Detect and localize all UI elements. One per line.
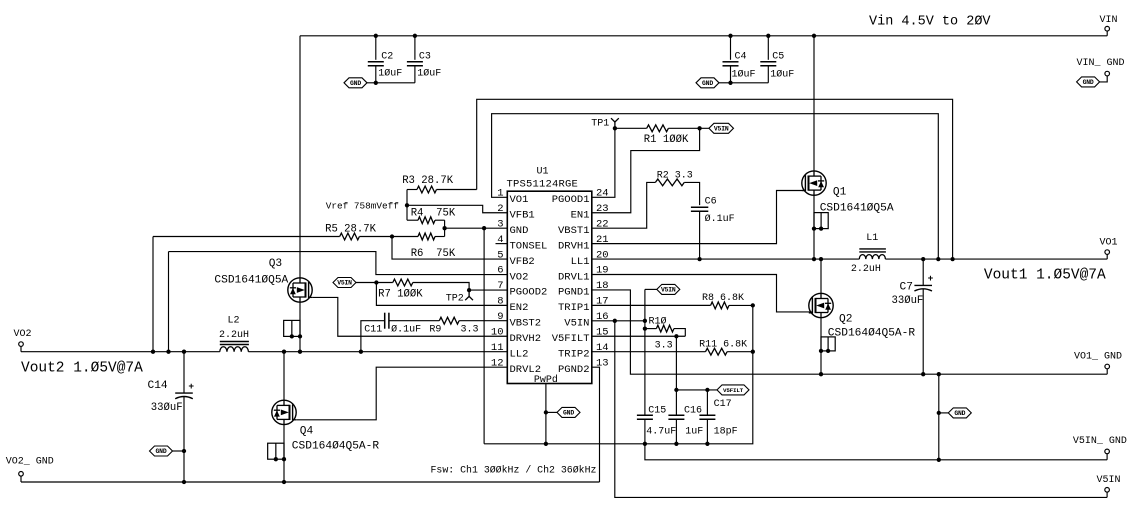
node R10 left junction	[643, 326, 647, 330]
capacitor C7	[914, 273, 933, 291]
wire pin18 PGND1 rail	[592, 290, 1107, 374]
wire GND stub C4	[719, 82, 731, 84]
wire R3 right lead	[437, 189, 477, 191]
label C3	[419, 52, 431, 63]
wire PwPd ground	[545, 384, 547, 444]
node VO2 R5 tap	[151, 350, 155, 354]
svg-text:V5IN: V5IN	[1097, 475, 1121, 486]
svg-text:R2 3.3: R2 3.3	[657, 170, 693, 181]
label R11 6.8K	[699, 339, 747, 350]
wire V5IN flag to C15	[644, 289, 646, 415]
svg-text:Vout2 1.Ø5V@7A: Vout2 1.Ø5V@7A	[21, 361, 143, 377]
resistor R2	[655, 179, 684, 186]
wire VO2 rail right	[248, 351, 507, 353]
wire EN2 to V5IN	[376, 283, 507, 306]
value C11 0.1uF	[391, 323, 421, 335]
svg-text:C15: C15	[648, 405, 666, 416]
wire VO1_GND terminal lead	[1106, 369, 1108, 374]
label R6 75K	[411, 248, 456, 260]
node R8 to ground branch	[751, 303, 755, 307]
wire C2-C3 ground link	[376, 82, 415, 84]
pin 11 LL2	[491, 342, 529, 361]
svg-text:C7: C7	[900, 282, 913, 294]
pin 6 VO2	[497, 265, 528, 284]
wire C15 bottom lead	[644, 419, 646, 444]
node C4 ground junction	[728, 81, 732, 85]
label L1	[866, 233, 878, 244]
svg-text:2.2uH: 2.2uH	[851, 264, 881, 275]
node C3 VIN junction	[413, 34, 417, 38]
wire R11 right lead	[727, 351, 753, 353]
svg-text:R1Ø: R1Ø	[649, 315, 667, 327]
wire V5IN flag to R7	[356, 282, 393, 284]
wire TP1 to R1	[615, 127, 647, 129]
svg-text:33ØuF: 33ØuF	[892, 295, 924, 307]
svg-text:VFB2: VFB2	[510, 256, 535, 268]
note Fsw	[431, 465, 597, 476]
label R1 100K	[644, 134, 689, 146]
svg-text:Fsw: Ch1 3ØØkHz / Ch2 36ØkHz: Fsw: Ch1 3ØØkHz / Ch2 36ØkHz	[431, 465, 597, 476]
svg-text:CSD1641ØQ5A: CSD1641ØQ5A	[820, 203, 894, 215]
svg-text:R11 6.8K: R11 6.8K	[699, 339, 747, 350]
value C14 330uF	[151, 402, 183, 414]
wire GND stub C14	[173, 450, 185, 452]
label Q4 CSD16404Q5A-R	[292, 440, 380, 452]
wire VO2 sense	[169, 252, 508, 275]
svg-text:1ØuF: 1ØuF	[732, 69, 756, 81]
wire C2 top lead	[375, 36, 377, 60]
wire EN1 to V5IN	[592, 128, 700, 212]
svg-text:TRIP1: TRIP1	[558, 302, 590, 314]
pad Q2 source pins	[819, 337, 835, 353]
wire PGND to V5IN_GND link	[938, 374, 940, 460]
value C6 0.1uF	[705, 213, 735, 225]
label C14	[148, 380, 168, 392]
wire C14 bottom lead	[183, 396, 185, 482]
svg-text:Vin 4.5V to 2ØV: Vin 4.5V to 2ØV	[869, 15, 991, 30]
node Q4 drain switch	[282, 350, 286, 354]
svg-text:CSD164Ø4Q5A-R: CSD164Ø4Q5A-R	[828, 328, 916, 340]
svg-text:8: 8	[497, 296, 503, 308]
capacitor C14	[175, 381, 194, 399]
svg-text:4.7uF: 4.7uF	[646, 426, 676, 437]
svg-text:10: 10	[491, 326, 504, 338]
svg-text:GND: GND	[1083, 79, 1094, 86]
transistor Q2	[809, 293, 833, 317]
label C6	[705, 196, 717, 207]
pin 14 TRIP2	[558, 342, 609, 361]
wire C14 top lead	[183, 352, 185, 393]
node C4 VIN junction	[728, 34, 732, 38]
svg-text:2.2uH: 2.2uH	[219, 330, 249, 341]
ground flag at V5IN_GND link	[948, 408, 971, 418]
pad Q3 source pins	[284, 320, 302, 338]
ground flag at C4	[696, 78, 719, 88]
wire VO2 rail left	[21, 351, 220, 353]
wire R5 left lead	[153, 236, 340, 238]
power flag V5IN at R10	[657, 284, 680, 294]
pin 19 DRVL1	[558, 265, 609, 284]
svg-text:R3 28.7K: R3 28.7K	[402, 175, 454, 187]
label C2	[381, 52, 393, 63]
wire VO2 rail to sense	[168, 252, 170, 352]
svg-text:EN2: EN2	[510, 302, 529, 314]
wire GND stub chain	[939, 412, 949, 414]
label Q3 CSD16410Q5A	[214, 274, 288, 286]
svg-text:12: 12	[491, 357, 504, 369]
pin 2 VFB1	[497, 203, 535, 222]
svg-text:3.3: 3.3	[461, 324, 479, 335]
wire VO2_GND rail	[21, 481, 600, 483]
label C17	[714, 399, 732, 410]
wire LL2 to C11	[361, 321, 385, 352]
ground flag VIN_GND	[1077, 77, 1100, 87]
wire pin16 V5IN	[592, 320, 645, 322]
wire GND stub PwPd	[546, 411, 557, 413]
pin 10 DRVH2	[491, 326, 541, 345]
node V5FILT link tap	[674, 388, 678, 392]
ground flag at PwPd	[557, 407, 580, 417]
wire V5IN flag stub	[645, 288, 657, 290]
transistor Q3	[288, 278, 312, 302]
label R7 100K	[378, 289, 423, 301]
svg-text:VIN_ GND: VIN_ GND	[1077, 58, 1125, 69]
wire VIN rail	[300, 35, 1107, 37]
node VO1 terminal	[1105, 250, 1110, 255]
svg-text:C17: C17	[714, 399, 732, 410]
label VO1	[1100, 238, 1118, 249]
svg-text:R7 1ØØK: R7 1ØØK	[378, 289, 423, 301]
svg-text:Q3: Q3	[269, 258, 282, 270]
node V5IN EN2 tap	[374, 280, 378, 284]
value R9 3.3	[461, 324, 479, 335]
wire pin20 LL1 switch node	[592, 258, 860, 260]
wire Q3 gate to pin10 DRVH2	[312, 297, 507, 336]
resistor R8	[711, 302, 729, 309]
pin 3 GND	[497, 218, 528, 237]
svg-text:GND: GND	[563, 410, 574, 417]
svg-text:R8 6.8K: R8 6.8K	[702, 293, 744, 304]
node TP1 junction	[613, 126, 617, 130]
node VO2 sense tap	[166, 350, 170, 354]
wire R4-R6 to GND pin vertical	[444, 220, 446, 236]
svg-text:33ØuF: 33ØuF	[151, 402, 183, 414]
wire VO2_GND terminal lead	[20, 476, 22, 482]
node Q3 source switch	[298, 350, 302, 354]
pin 16 V5IN	[564, 311, 608, 330]
label R3 28.7K	[402, 175, 454, 187]
svg-text:V5FILT: V5FILT	[723, 387, 744, 394]
wire pin17 TRIP1 to R8	[592, 304, 711, 306]
node PwPd flag tap	[544, 410, 548, 414]
svg-text:11: 11	[491, 342, 504, 354]
node C17 ground junction	[705, 442, 709, 446]
pin 24 PGOOD1	[552, 188, 609, 207]
label R8 6.8K	[702, 293, 744, 304]
node Q2 drain switch	[819, 257, 823, 261]
svg-text:GND: GND	[954, 410, 965, 417]
value L1 2.2uH	[851, 264, 881, 275]
wire C7 top lead	[922, 259, 924, 285]
svg-text:1uF: 1uF	[685, 426, 703, 437]
label Vref 758mVeff	[326, 200, 400, 211]
node R1 V5IN junction	[697, 126, 701, 130]
wire C6 to LL1	[699, 211, 701, 259]
svg-text:EN1: EN1	[571, 210, 590, 222]
op-amp U1 TPS51124RGE body	[507, 166, 592, 385]
node C7 PGND junction	[921, 372, 925, 376]
node VIN terminal	[1105, 26, 1110, 31]
label L2	[228, 316, 240, 327]
node C2 VIN junction	[374, 34, 378, 38]
wire VO1 rail	[885, 258, 1107, 260]
svg-text:PGOOD2: PGOOD2	[510, 287, 548, 299]
node C14 to VO2_GND rail	[182, 480, 186, 484]
svg-text:DRVL1: DRVL1	[558, 271, 590, 283]
svg-text:R6 75K: R6 75K	[411, 248, 456, 260]
svg-text:TP1: TP1	[591, 118, 609, 129]
wire pin13 PGND2 to rail	[592, 367, 600, 482]
pin 18 PGND1	[558, 280, 609, 299]
value C4 10uF	[732, 69, 756, 81]
svg-text:TRIP2: TRIP2	[558, 349, 590, 361]
svg-text:R1 1ØØK: R1 1ØØK	[644, 134, 689, 146]
label VO2	[14, 329, 32, 340]
svg-text:C4: C4	[735, 52, 747, 63]
label C11	[364, 324, 382, 335]
svg-text:Vout1 1.Ø5V@7A: Vout1 1.Ø5V@7A	[984, 267, 1106, 283]
value C5 10uF	[770, 69, 794, 81]
wire pin15 V5FILT	[592, 335, 686, 337]
svg-text:3: 3	[497, 218, 503, 230]
svg-text:3.3: 3.3	[655, 340, 673, 351]
capacitor C16	[668, 415, 684, 419]
wire VIN drop to Q3 drain	[299, 36, 301, 278]
svg-text:V5IN: V5IN	[714, 126, 729, 133]
wire pin1 VO1 to output	[492, 114, 939, 259]
wire C17 bottom lead	[706, 419, 708, 444]
label R2 3.3	[657, 170, 693, 181]
resistor R9	[439, 317, 459, 324]
node R11 to ground branch	[751, 350, 755, 354]
svg-text:5: 5	[497, 249, 503, 261]
label VO2_GND	[6, 456, 54, 467]
capacitor C3	[407, 62, 423, 66]
node Q1 VIN junction	[812, 34, 816, 38]
svg-text:C3: C3	[419, 52, 431, 63]
value C15 4.7uF	[646, 426, 676, 437]
wire pin21 DRVH1 to Q1 gate	[592, 191, 806, 244]
capacitor C4	[723, 62, 739, 66]
label Q4	[300, 426, 314, 438]
wire Q1 source	[813, 195, 815, 259]
node TP2 junction	[467, 288, 471, 292]
svg-text:18pF: 18pF	[714, 426, 738, 437]
pin 13 PGND2	[558, 357, 609, 376]
node C2 ground junction	[374, 81, 378, 85]
node Q4 source to rail	[282, 480, 286, 484]
label C7	[900, 282, 913, 294]
wire R6 right lead	[435, 236, 445, 238]
node PwPd ground junction	[544, 442, 548, 446]
inductor L2	[220, 342, 249, 352]
svg-text:V5IN_ GND: V5IN_ GND	[1073, 436, 1127, 447]
svg-text:VO1: VO1	[1100, 238, 1118, 249]
resistor R11	[706, 348, 728, 355]
node C6 LL1 junction	[697, 257, 701, 261]
svg-text:VBST1: VBST1	[558, 225, 590, 237]
node V5IN terminal	[1105, 488, 1110, 493]
wire VFB1 to pin2	[407, 205, 507, 212]
label V5IN_GND	[1073, 436, 1127, 447]
wire Q4 source	[283, 425, 285, 482]
wire VO2 rail to R5	[152, 237, 154, 352]
wire VFB2 to pin5	[392, 237, 507, 260]
wire pin24 PGOOD1 to TP1	[592, 128, 615, 197]
wire R2 to C6	[684, 182, 699, 205]
svg-text:PGOOD1: PGOOD1	[552, 194, 590, 206]
wire V5FILT link	[676, 389, 717, 391]
capacitor C11	[385, 313, 389, 329]
label VIN_GND	[1077, 58, 1125, 69]
svg-text:GND: GND	[510, 225, 529, 237]
wire VO1 remote sense (R3 to output)	[477, 99, 953, 259]
wire R4 left lead	[407, 219, 418, 221]
node C15 ground junction	[643, 442, 647, 446]
pin 20 LL1	[571, 249, 609, 268]
label Q1 CSD16410Q5A	[820, 203, 894, 215]
node V5IN down tap	[613, 319, 617, 323]
svg-text:Ø.1uF: Ø.1uF	[705, 213, 735, 225]
svg-text:Vref 758mVeff: Vref 758mVeff	[326, 200, 400, 211]
svg-text:CSD1641ØQ5A: CSD1641ØQ5A	[214, 274, 288, 286]
svg-text:VO2: VO2	[510, 271, 529, 283]
value C3 10uF	[417, 67, 441, 79]
node V5FILT C16 tap	[674, 334, 678, 338]
svg-text:PGND2: PGND2	[558, 364, 590, 376]
value C17 18pF	[714, 426, 738, 437]
label V5IN bottom	[1097, 475, 1121, 486]
node GND branch	[482, 226, 486, 230]
wire Q3 source	[299, 302, 301, 352]
svg-text:+: +	[188, 381, 194, 392]
wire pin19 DRVL1 to Q2 gate	[592, 275, 813, 312]
svg-text:C14: C14	[148, 380, 168, 392]
svg-text:Q4: Q4	[300, 426, 314, 438]
wire V5IN_GND terminal lead	[1106, 454, 1108, 460]
svg-text:GND: GND	[350, 80, 361, 87]
svg-text:L2: L2	[228, 316, 240, 327]
svg-text:1: 1	[497, 188, 503, 200]
label Q3	[269, 258, 282, 270]
svg-text:R5 28.7K: R5 28.7K	[325, 223, 377, 235]
capacitor C5	[760, 62, 776, 66]
label VIN	[1100, 15, 1118, 26]
svg-text:DRVL2: DRVL2	[510, 364, 542, 376]
pin 1 VO1	[497, 188, 528, 207]
ground flag at C14	[150, 446, 173, 456]
value R10 3.3	[655, 340, 673, 351]
wire R5 right lead	[359, 236, 392, 238]
svg-text:Q1: Q1	[833, 186, 847, 198]
svg-text:DRVH2: DRVH2	[510, 333, 542, 345]
resistor R1	[647, 125, 669, 132]
wire R4 right lead	[435, 219, 445, 221]
wire C4 bottom lead	[730, 66, 732, 83]
wire C5 bottom lead	[767, 66, 769, 83]
svg-text:+: +	[928, 273, 934, 284]
capacitor C15	[637, 415, 653, 419]
test point TP1	[611, 118, 619, 128]
svg-text:1ØuF: 1ØuF	[770, 69, 794, 81]
pin 22 VBST1	[558, 218, 609, 237]
label TP2	[446, 293, 464, 304]
wire VFB1 node vertical	[406, 190, 408, 221]
wire R1 to V5IN flag	[668, 127, 709, 129]
node V5IN_GND terminal	[1105, 449, 1110, 454]
svg-text:L1: L1	[866, 233, 878, 244]
wire GND vertical	[483, 228, 485, 444]
svg-text:LL1: LL1	[571, 256, 590, 268]
label R9	[429, 324, 441, 335]
svg-text:1ØuF: 1ØuF	[378, 67, 402, 79]
value C16 1uF	[685, 426, 703, 437]
wire C11 to R9	[389, 320, 439, 322]
label C16	[684, 405, 702, 416]
svg-text:VO1: VO1	[510, 194, 529, 206]
wire C5 top lead	[767, 36, 769, 60]
svg-text:GND: GND	[156, 448, 167, 455]
pin 15 V5FILT	[552, 326, 609, 345]
node Q2 source to PGND	[819, 372, 823, 376]
label Q2 CSD16404Q5A-R	[828, 328, 916, 340]
resistor R6	[418, 233, 435, 240]
wire V5IN terminal lead	[1106, 492, 1108, 497]
pin 17 TRIP1	[558, 296, 609, 315]
wire R8 right lead	[729, 304, 753, 306]
power flag V5IN at R1	[709, 123, 734, 133]
node C17 tap	[705, 388, 709, 392]
pin 5 VFB2	[497, 249, 535, 268]
svg-text:DRVH1: DRVH1	[558, 240, 590, 252]
svg-text:C11: C11	[364, 324, 382, 335]
label C15	[648, 405, 666, 416]
ground flag at C2	[344, 78, 367, 88]
value C2 10uF	[378, 67, 402, 79]
wire C2 bottom lead	[375, 66, 377, 83]
transistor Q1	[802, 171, 826, 195]
svg-text:U1: U1	[537, 166, 549, 177]
svg-text:R4 75K: R4 75K	[411, 207, 456, 219]
wire R10 right lead	[674, 329, 685, 337]
node VIN_GND terminal	[1105, 71, 1110, 76]
svg-text:V5IN: V5IN	[661, 287, 676, 294]
svg-text:TP2: TP2	[446, 293, 464, 304]
value L2 2.2uH	[219, 330, 249, 341]
svg-text:C2: C2	[381, 52, 393, 63]
wire C17 branch	[706, 390, 708, 415]
resistor R3	[417, 186, 437, 193]
label Q1	[833, 186, 847, 198]
pin 7 PGOOD2	[497, 280, 547, 299]
svg-text:Ø.1uF: Ø.1uF	[391, 323, 421, 335]
svg-text:V5IN: V5IN	[564, 318, 589, 330]
label R4 75K	[411, 207, 456, 219]
resistor R5	[340, 233, 360, 240]
label Q2	[839, 313, 852, 325]
wire V5IN to bottom rail	[615, 321, 1107, 498]
pin 9 VBST2	[497, 311, 541, 330]
